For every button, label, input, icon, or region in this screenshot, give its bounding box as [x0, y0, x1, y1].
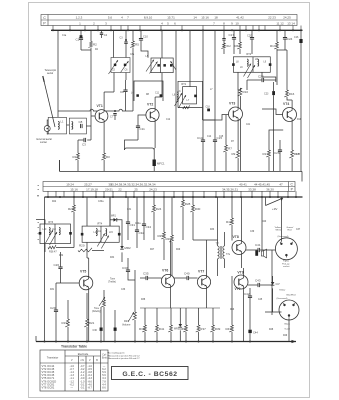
capacitor C15: [213, 140, 217, 142]
wire R41 bottom: [156, 332, 158, 342]
svg-text:C4: C4: [104, 33, 108, 37]
wire C34 top: [143, 197, 145, 224]
svg-text:socket: socket: [40, 141, 47, 144]
junction on top rail x=85: [84, 29, 86, 31]
on-off switch S1: [266, 198, 284, 206]
svg-text:R5: R5: [135, 42, 139, 46]
wire VT6 emitter: [170, 288, 172, 309]
wire C4 bottom: [101, 35, 103, 38]
wire VT6 collector: [170, 240, 172, 275]
svg-text:R20: R20: [68, 207, 74, 211]
svg-text:41,42: 41,42: [236, 16, 244, 20]
resistor R6: [237, 42, 241, 49]
junction on bottom rail x=87: [86, 341, 88, 343]
svg-text:R38: R38: [141, 299, 146, 301]
capacitor C26: [278, 150, 282, 152]
wire volume top: [134, 270, 136, 312]
connector pin wires to top rail: [53, 26, 301, 31]
svg-text:C44: C44: [253, 331, 258, 335]
svg-text:C22: C22: [258, 75, 264, 79]
svg-text:VT1: VT1: [97, 104, 103, 108]
wire C26 bottom: [279, 152, 281, 172]
wire to J2: [265, 311, 282, 313]
wire tuner feed 2a: [125, 30, 127, 42]
capacitor C31: [126, 222, 130, 224]
core arrow IFT4 b: [101, 236, 109, 249]
svg-text:‡Measured at junction R4 and C: ‡Measured at junction R4 and C7: [107, 357, 140, 360]
wire IFT1 bottom: [178, 107, 203, 109]
wire right col x=272: [271, 250, 273, 315]
feedthrough L5 a: [157, 64, 160, 67]
feedthrough IFT4 right: [118, 233, 121, 236]
svg-text:C16: C16: [294, 36, 299, 39]
coil L15: [106, 229, 107, 236]
svg-text:20-21: 20-21: [105, 187, 113, 191]
wire IFT1 feed: [189, 30, 191, 86]
wire bottom rail: [0, 0, 1, 1]
junction on bottom top rail x=252: [251, 196, 253, 198]
junction on bottom rail x=56: [55, 341, 57, 343]
wire T7 left bottom: [217, 259, 219, 276]
svg-text:†Measured at junction R1 and C: †Measured at junction R1 and C2: [107, 354, 140, 357]
wire C40 right: [189, 277, 198, 279]
variable capacitor C5: [109, 60, 119, 74]
wire bus drop x=224c: [223, 49, 225, 55]
core arrow IFT1: [175, 93, 183, 106]
wire MFC1 top: [153, 148, 155, 160]
diode MR4: [271, 282, 275, 285]
wire link C14 C15: [203, 119, 215, 121]
svg-text:24,23: 24,23: [149, 187, 157, 191]
transistor VT5: [79, 276, 93, 290]
svg-text:C8: C8: [120, 90, 124, 94]
capacitor C8 in box: [81, 124, 83, 128]
wire IFT2 down-right: [262, 72, 276, 82]
resistor R13b under IFT1: [183, 105, 190, 108]
wire R6 top: [239, 30, 241, 42]
wire IFT4-VT5 link: [87, 257, 89, 259]
wire VT9 collector: [243, 268, 245, 276]
svg-text:-0.1: -0.1: [80, 387, 85, 390]
wire C32 top: [136, 197, 138, 230]
junction on bottom top rail x=193: [192, 196, 194, 198]
external aerial socket: [44, 126, 50, 132]
wire R43 bottom: [231, 332, 233, 342]
svg-text:Yellow: Yellow: [279, 290, 286, 292]
coil L11b: [59, 228, 60, 235]
wire R42 top: [231, 197, 233, 218]
svg-text:17,19,18: 17,19,18: [86, 187, 98, 191]
capacitor C23 blob: [272, 91, 275, 95]
junction on bottom top rail x=74: [73, 196, 75, 198]
svg-text:11 12: 11 12: [276, 21, 284, 25]
svg-text:C41: C41: [255, 243, 261, 247]
wire T7 left top: [217, 197, 219, 246]
svg-text:C: C: [43, 16, 46, 20]
resistor R5: [130, 41, 134, 47]
svg-text:VT3: VT3: [229, 102, 235, 106]
junction on bottom rail x=44.5: [44, 341, 46, 343]
wire MR2 bottom: [121, 252, 123, 262]
wire lower-left riser: [59, 160, 61, 171]
wire C44 bottom: [249, 333, 251, 341]
wire IFT1 right down: [202, 108, 204, 120]
wire C1-R2 junction: [81, 48, 91, 141]
core arrow IFT1 b: [179, 95, 187, 108]
junction on bottom top rail x=224: [223, 196, 225, 198]
wire C44 top: [249, 300, 251, 330]
junction on bottom rail x=68: [67, 341, 69, 343]
svg-text:10: 10: [235, 21, 239, 25]
junction on top rail x=98: [97, 29, 99, 31]
resistor R2: [88, 42, 92, 48]
wire C33 link: [128, 272, 135, 280]
wire R41 top: [156, 308, 158, 325]
wire C14 bottom: [202, 142, 204, 172]
bottom block top rail: [45, 196, 303, 198]
svg-text:socket: socket: [283, 265, 290, 268]
svg-text:22: 22: [118, 187, 122, 191]
wire C4 top: [101, 30, 103, 33]
wire R24 bottom: [153, 212, 155, 240]
feedthrough IFT1: [194, 95, 197, 98]
svg-text:9-volt: 9-volt: [285, 328, 291, 331]
wire L2 to VT1 base: [86, 125, 91, 127]
svg-text:IFT4: IFT4: [97, 222, 103, 225]
svg-text:R10: R10: [243, 90, 249, 94]
svg-text:Col-: Col-: [102, 355, 106, 357]
wire R45 bottom: [185, 332, 187, 342]
tone pot arrow: [99, 297, 105, 306]
wire R20b right: [92, 250, 104, 252]
svg-text:R45: R45: [180, 327, 186, 331]
wire C14 top: [202, 30, 204, 140]
wire VT4 base chain: [269, 130, 283, 140]
wire R19 bottom: [67, 327, 69, 342]
svg-text:C12: C12: [166, 119, 171, 121]
svg-text:14: 14: [193, 16, 197, 20]
wire R1 to rail: [77, 160, 79, 171]
wire C20 bottom: [251, 39, 253, 54]
resistor R20b: [78, 248, 92, 252]
wire R3 bottom: [103, 160, 105, 171]
junction on top rail x=182: [181, 29, 183, 31]
coil L6: [177, 92, 178, 102]
svg-text:R35: R35: [139, 327, 145, 331]
svg-text:IFT1: IFT1: [181, 83, 187, 86]
resistor R40: [168, 325, 172, 332]
capacitor C43: [258, 283, 260, 287]
wire T7 right bottom: [224, 259, 226, 268]
wire R25 bottom: [163, 239, 165, 260]
resistor R17: [274, 42, 278, 49]
svg-text:Volume: Volume: [122, 323, 131, 326]
wire R28 top: [182, 197, 184, 200]
svg-text:VT8 OC81: VT8 OC81: [42, 386, 55, 390]
svg-text:R1: R1: [73, 155, 77, 159]
svg-text:8,9,10: 8,9,10: [144, 16, 153, 20]
wire C33 t: [127, 258, 129, 270]
svg-text:5,6: 5,6: [108, 16, 113, 20]
junction on bottom rail x=213: [212, 341, 214, 343]
resistor R28: [180, 200, 184, 207]
wire R21 bottom: [86, 327, 88, 342]
arrowhead bottom rail: [292, 340, 297, 343]
svg-text:C45: C45: [258, 299, 263, 301]
resistor R35: [142, 325, 146, 332]
resistor R37: [196, 325, 200, 332]
svg-text:Black: Black: [285, 324, 291, 326]
wire MFC1 bottom: [153, 166, 155, 171]
transistor VT9: [234, 275, 248, 289]
svg-text:15 16: 15 16: [70, 187, 78, 191]
svg-text:R43: R43: [226, 327, 232, 331]
svg-text:R27: R27: [150, 249, 155, 251]
wire VT7 collector: [206, 240, 208, 276]
wire R5 top: [132, 30, 134, 41]
svg-text:Transistor Table: Transistor Table: [61, 345, 87, 349]
svg-text:Tone: Tone: [110, 279, 116, 281]
wire R19 top: [67, 300, 69, 319]
core arrow IFT2: [244, 64, 252, 77]
resistor R39: [210, 325, 214, 332]
capacitor C29: [54, 310, 58, 312]
module MFC1: [153, 160, 156, 167]
svg-text:19 24: 19 24: [66, 182, 74, 186]
wire c24 link: [277, 49, 287, 51]
wire IFT1 to VT3 base: [203, 115, 229, 121]
wire C41 left: [246, 249, 258, 251]
svg-text:mV: mV: [81, 360, 85, 362]
wire left aerial rail: [57, 30, 59, 117]
svg-text:VT4: VT4: [283, 102, 289, 106]
junction on top rail x=161: [160, 29, 162, 31]
junction on bottom top rail x=96: [95, 196, 97, 198]
svg-text:IFT2: IFT2: [246, 53, 252, 56]
wire C30 bottom: [100, 331, 102, 342]
core arrow IFT3 b: [50, 232, 58, 245]
wire R45 top: [185, 308, 187, 325]
wire R30 to T7: [193, 239, 218, 241]
svg-text:R37: R37: [200, 327, 206, 331]
wire stub left rail: [36, 219, 45, 221]
svg-text:C34: C34: [146, 225, 152, 229]
wire T7 right top: [224, 232, 226, 246]
junction on bottom top rail x=270: [269, 196, 271, 198]
wire R26 top: [171, 197, 173, 235]
wire R1 top: [77, 140, 79, 153]
svg-text:13 14: 13 14: [287, 21, 295, 25]
wire between aerial boxes: [67, 124, 70, 126]
capacitor C11: [136, 126, 140, 128]
svg-text:G.E.C. - BC562: G.E.C. - BC562: [122, 371, 177, 378]
junction on bottom rail x=145: [144, 341, 146, 343]
wire tuner feed 2b: [125, 44, 127, 58]
capacitor C3: [124, 42, 127, 44]
wire VT5 emitter: [88, 290, 90, 342]
resistor R45: [183, 325, 187, 332]
core arrow IFT4: [97, 234, 105, 247]
telescopic aerial rod: [44, 79, 56, 127]
svg-text:+9V: +9V: [272, 207, 277, 211]
wire R7 bottom: [225, 152, 227, 171]
svg-text:25,27: 25,27: [84, 182, 92, 186]
svg-text:Blue/Red: Blue/Red: [287, 294, 297, 296]
wire C31b top: [114, 310, 116, 328]
wire to J1: [272, 249, 275, 251]
svg-text:C8: C8: [79, 120, 83, 124]
wire C43 left: [248, 284, 258, 286]
wire R16 bottom: [287, 97, 292, 100]
svg-text:*AC reading given: *AC reading given: [107, 352, 125, 355]
svg-text:35,34,38,34,35,32,34,36,32,34,: 35,34,38,34,35,32,34,36,32,34,34: [110, 182, 155, 186]
svg-text:R18: R18: [297, 119, 302, 121]
diode MR1: [114, 218, 117, 222]
wire C23 top: [273, 82, 275, 91]
feedthrough IFT2 right: [269, 63, 272, 66]
wire C26b bottom: [60, 269, 62, 283]
wire VT8 emitter: [241, 255, 243, 269]
junction on top rail x=301: [300, 29, 302, 31]
junction AGC: [114, 110, 116, 112]
svg-text:VT7: VT7: [198, 270, 204, 274]
transistor VT3: [229, 107, 243, 121]
loudspeaker LS1: [261, 251, 263, 256]
socket J2 (battery): [279, 300, 299, 320]
wire VT2 base left: [138, 115, 146, 126]
wire C31b bottom: [114, 331, 116, 342]
svg-text:R16: R16: [289, 92, 295, 96]
wire C8 bottom: [125, 92, 127, 111]
resistor R21: [84, 319, 88, 327]
aerial coil box L1: [48, 117, 66, 133]
resistor R16: [284, 90, 288, 97]
volume pot arrow: [128, 312, 134, 322]
wire tuner right down: [125, 73, 127, 81]
junction on bottom top rail x=113: [112, 196, 114, 198]
wire C8 top: [125, 80, 127, 90]
wire switch drop: [265, 197, 267, 206]
svg-text:C14: C14: [197, 136, 203, 140]
wire VT4 emitter: [291, 121, 293, 150]
junction tuner feed 2: [125, 39, 127, 41]
svg-text:R6: R6: [235, 44, 239, 48]
junction on bottom rail x=186: [185, 341, 187, 343]
oscillator screen box: [134, 81, 163, 101]
svg-text:R3: R3: [106, 155, 110, 159]
junction on top rail x=128: [127, 29, 129, 31]
wire R13 top: [268, 140, 270, 150]
wire tone top: [103, 290, 105, 300]
wire C34 bottom: [143, 226, 145, 240]
svg-text:24,25: 24,25: [283, 16, 291, 20]
wire MR1 feed: [109, 197, 111, 226]
capacitor C21a: [222, 39, 225, 41]
wire R17 top: [276, 30, 278, 42]
wire x=302 drop: [301, 171, 303, 181]
wire C30 top: [100, 307, 102, 328]
svg-text:(Screened): (Screened): [277, 297, 288, 300]
wire C31 bottom: [127, 224, 129, 240]
wire C29 branch: [56, 282, 61, 284]
capacitor C14: [201, 140, 205, 142]
junction on bottom top rail x=278: [277, 196, 279, 198]
svg-text:R17: R17: [270, 44, 276, 48]
capacitor C26b: [58, 267, 62, 269]
wire R42 bottom: [231, 225, 233, 241]
wire C24 top: [284, 30, 286, 37]
junction on top rail x=293: [292, 29, 294, 31]
wire VT2 collector: [154, 97, 156, 109]
capacitor C41: [258, 248, 260, 252]
wire R20 top: [73, 197, 75, 205]
wire R2 top: [90, 30, 92, 41]
wire C10 bottom bend: [141, 40, 148, 58]
wire C35 left: [140, 277, 146, 279]
svg-text:R46: R46: [230, 309, 235, 311]
junction on top rail x=53: [52, 29, 54, 31]
wire R30 top: [192, 197, 194, 205]
svg-text:R20: R20: [79, 244, 85, 248]
wire VT4 base: [262, 109, 283, 115]
resistor R12: [221, 43, 225, 49]
junction on bottom top rail x=104: [103, 196, 105, 198]
svg-text:34,35,36,31: 34,35,36,31: [222, 187, 238, 191]
telescopic aerial rod tip: [43, 76, 44, 82]
svg-text:R36 47: R36 47: [49, 251, 57, 254]
junction on bottom top rail x=232: [231, 196, 233, 198]
wire R37 top: [198, 308, 200, 325]
svg-text:C33: C33: [122, 266, 128, 270]
wire R30 bottom: [192, 212, 194, 240]
wire C29 b: [55, 312, 57, 342]
wire IFT4 up2: [109, 197, 111, 226]
junction on bottom rail x=115: [114, 341, 116, 343]
resistor R7: [223, 145, 227, 152]
svg-text:R30: R30: [195, 207, 201, 211]
wire volume bottom: [134, 320, 136, 342]
wire R36 right: [56, 247, 74, 249]
svg-text:R32: R32: [59, 255, 64, 257]
transistor VT8: [232, 241, 246, 255]
wire C43 right: [260, 284, 272, 286]
junction on bottom top rail x=134: [133, 196, 135, 198]
svg-text:C21: C21: [246, 124, 251, 126]
svg-text:R33: R33: [210, 229, 215, 231]
wire C22 left: [247, 80, 262, 90]
junction on bottom top rail x=174: [173, 196, 175, 198]
coil L8: [247, 59, 248, 66]
core arrow IFT3: [46, 230, 54, 243]
svg-text:47: 47: [279, 182, 283, 186]
wire R21 top: [86, 293, 88, 319]
wire R39 bottom: [212, 332, 214, 342]
wire R5 bottom: [132, 48, 134, 112]
svg-text:C26: C26: [54, 263, 60, 267]
capacitor C30 (electrolytic): [100, 328, 103, 331]
coil L1: [58, 122, 59, 130]
svg-text:Pick-up: Pick-up: [282, 263, 290, 265]
resistor R20: [71, 205, 75, 212]
wire R17 bottom: [276, 49, 278, 85]
wire C29 v: [55, 283, 57, 310]
wire L5 right vertical: [175, 30, 177, 171]
wire IFT4 down: [86, 242, 88, 258]
svg-text:MR1: MR1: [111, 216, 117, 218]
wire R15 bottom: [291, 158, 293, 171]
svg-text:R2: R2: [93, 43, 97, 47]
capacitor C35: [146, 276, 148, 280]
